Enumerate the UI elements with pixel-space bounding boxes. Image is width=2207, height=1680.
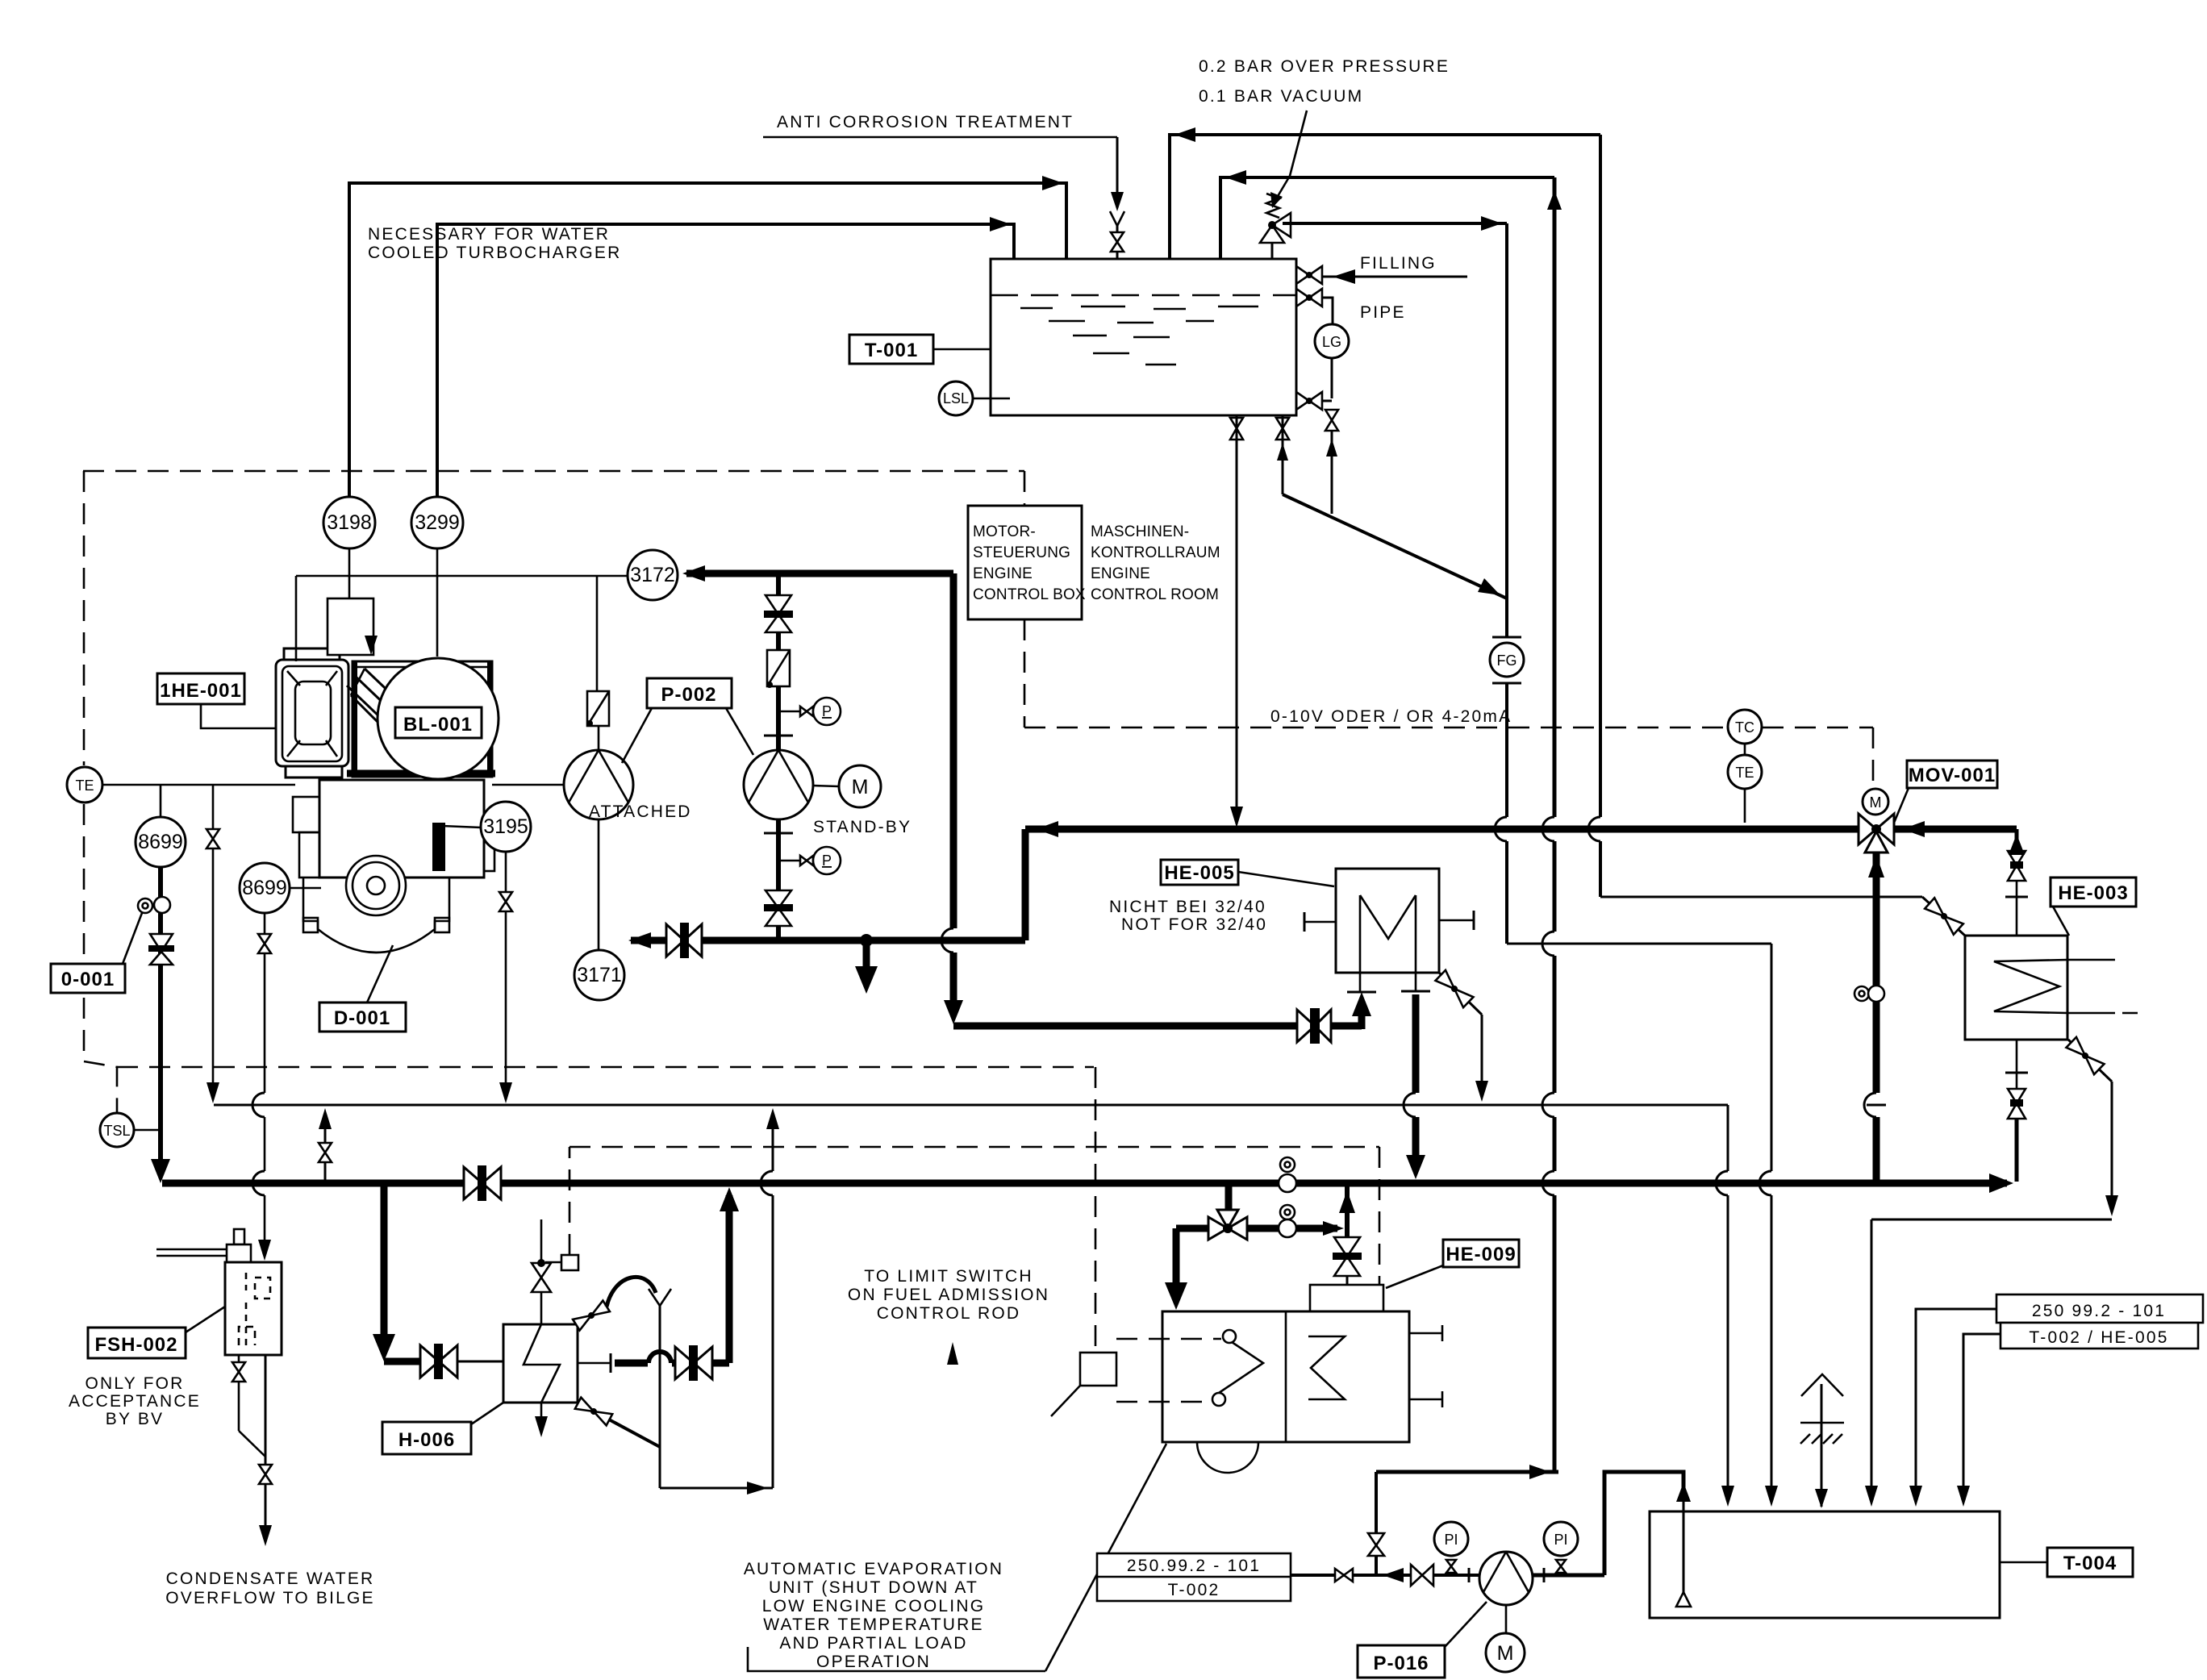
svg-text:OPERATION: OPERATION [816, 1653, 931, 1671]
wire: drain run to tank T-004 [1507, 944, 1778, 1507]
wire: anti corrosion dosing drop into tank T-001 [1110, 137, 1124, 232]
label MOV-001 [1894, 761, 1997, 823]
note to limit switch [848, 1267, 1049, 1365]
svg-text:AND PARTIAL LOAD: AND PARTIAL LOAD [779, 1634, 967, 1653]
svg-text:BL-001: BL-001 [403, 714, 473, 736]
svg-text:TE: TE [1735, 765, 1754, 781]
filling pipe [1322, 254, 1467, 322]
svg-text:NICHT BEI 32/40: NICHT BEI 32/40 [1109, 898, 1266, 916]
svg-text:8699: 8699 [138, 831, 183, 853]
pipe HE-005 feed (y=1272) [953, 973, 1376, 1044]
svg-text:CONTROL ROD: CONTROL ROD [877, 1304, 1021, 1323]
instrument TC [1728, 710, 1762, 744]
svg-text:TSL: TSL [103, 1123, 130, 1139]
HE-003 drain to T-004 [1865, 1037, 2118, 1507]
dashed limit switch signal path [569, 1147, 1379, 1284]
valve 45deg on HE-003 feed [1925, 898, 1963, 934]
label P-002 [622, 678, 753, 763]
P-016 suction line [1291, 1565, 1479, 1586]
svg-text:ENGINE: ENGINE [1091, 565, 1150, 582]
svg-text:FG: FG [1497, 652, 1517, 669]
FSH-002 float switch vessel [156, 1229, 282, 1355]
branch main to header (x=403) [319, 1108, 332, 1183]
sample point on bottom main [1279, 1157, 1296, 1192]
tank bottom drain valve 1 [1230, 415, 1243, 827]
instrument TSL [100, 1113, 162, 1147]
svg-text:T-001: T-001 [865, 340, 918, 361]
pipe L1: turbocharger vent 3198 to tank [349, 176, 1066, 498]
pipe: O-001 drain down to bottom main [138, 867, 174, 1183]
wire crossing jumps [941, 928, 963, 953]
svg-text:H-006: H-006 [398, 1429, 455, 1451]
svg-text:T-002: T-002 [1168, 1581, 1220, 1599]
label T-001 [849, 335, 991, 364]
svg-text:TO LIMIT SWITCH: TO LIMIT SWITCH [864, 1267, 1033, 1286]
label 1HE-001 [157, 673, 276, 728]
pump P-016 [1479, 1552, 1533, 1634]
label D-001 [319, 945, 406, 1032]
HE-009 recirculation right leg [1247, 1183, 1362, 1285]
bypass up to evap return riser [1368, 1465, 1558, 1575]
svg-text:0-001: 0-001 [61, 969, 115, 990]
FSH-002 drains [232, 1355, 272, 1546]
instrument TE engine [67, 767, 295, 802]
svg-text:CONDENSATE WATER: CONDENSATE WATER [166, 1570, 375, 1588]
drain header (y=1370) [214, 1105, 1734, 1507]
svg-text:P-002: P-002 [661, 684, 716, 706]
label HE-005 with note [1109, 860, 1334, 934]
svg-text:ONLY FOR: ONLY FOR [85, 1374, 184, 1393]
heat exchanger HE-005 [1304, 869, 1474, 973]
pipe R2: return line 2 into tank top [1220, 170, 1562, 259]
H-006 overflow swan neck to funnel [573, 1277, 671, 1488]
bottom main (y=1467) [162, 1173, 2013, 1193]
svg-text:0.1 BAR VACUUM: 0.1 BAR VACUUM [1199, 87, 1363, 106]
svg-text:M: M [1497, 1642, 1514, 1665]
note: necessary for water cooled turbocharger [368, 225, 621, 262]
svg-text:MOV-001: MOV-001 [1909, 765, 1996, 786]
note condensate water overflow [165, 1570, 375, 1607]
svg-text:FSH-002: FSH-002 [94, 1334, 177, 1356]
HE-003 bottom valve to main [2005, 1040, 2028, 1182]
svg-text:UNIT (SHUT DOWN AT: UNIT (SHUT DOWN AT [769, 1578, 978, 1597]
svg-text:3198: 3198 [327, 511, 372, 534]
svg-text:LG: LG [1322, 334, 1341, 350]
riser: evaporator return to tank (x=1927) [1553, 177, 1557, 1472]
node 3172 [296, 550, 678, 661]
PI gauge 1 [1434, 1522, 1468, 1573]
svg-text:WATER TEMPERATURE: WATER TEMPERATURE [763, 1615, 983, 1634]
riser MOV bottom port from T-004 loop [1854, 853, 1884, 1183]
valve on bottom main [464, 1165, 501, 1201]
svg-text:P: P [822, 703, 832, 719]
tank T-004 [1650, 1494, 2000, 1618]
main engine outlet header to MOV-001 (y=1028) [1025, 821, 2017, 837]
svg-text:HE-005: HE-005 [1164, 862, 1234, 884]
LG lower tank valve [1296, 392, 1332, 410]
charge air cooler housing [347, 661, 495, 777]
HE-005 drain to header [1435, 970, 1488, 1102]
control box MOTOR-STEUERUNG [968, 506, 1220, 619]
svg-text:HE-009: HE-009 [1446, 1244, 1516, 1265]
charge air connection box [328, 598, 378, 655]
svg-text:STAND-BY: STAND-BY [813, 818, 912, 836]
svg-text:KONTROLLRAUM: KONTROLLRAUM [1091, 544, 1220, 561]
filling pipe valve [1296, 266, 1322, 284]
evaporator HE-009 [1162, 1285, 1442, 1473]
pump P-002 attached [564, 576, 692, 950]
svg-text:ON FUEL ADMISSION: ON FUEL ADMISSION [848, 1286, 1049, 1304]
node 8699 engine oil [136, 785, 186, 867]
motor M stand-by [813, 765, 912, 836]
valve on dosing line [1111, 232, 1124, 259]
note: 0.2 bar over pressure / 0.1 bar vacuum [1199, 57, 1450, 208]
pump P-016 circuit [1097, 1553, 1291, 1601]
svg-text:ATTACHED: ATTACHED [589, 802, 692, 821]
valve MOV-001 3-way [1859, 814, 1894, 853]
atmospheric vent for T-004 [1800, 1374, 1844, 1508]
svg-text:MOTOR-: MOTOR- [973, 523, 1036, 540]
svg-text:NOT FOR 32/40: NOT FOR 32/40 [1121, 915, 1267, 934]
funnel drain to header riser [660, 1108, 779, 1494]
dashed links limit switch to HE-009 [1051, 1339, 1221, 1416]
HE-005 outlet down to bottom main [1401, 973, 1430, 1179]
dashed border around engine scope [83, 471, 1095, 1353]
dashed control line 0-10V [1024, 707, 1873, 787]
svg-text:0-10V ODER / OR 4-20mA: 0-10V ODER / OR 4-20mA [1270, 707, 1512, 726]
svg-text:TE: TE [75, 777, 94, 794]
wire: engine suction line right of engine to attached pump [492, 784, 565, 786]
relief valve on tank T-001 [1260, 194, 1291, 259]
engine D-001 block [293, 780, 494, 953]
svg-text:COOLED TURBOCHARGER: COOLED TURBOCHARGER [368, 244, 621, 262]
node 3171 [574, 950, 624, 1000]
svg-text:M: M [1870, 794, 1882, 811]
svg-text:PI: PI [1554, 1532, 1567, 1548]
svg-text:ENGINE: ENGINE [973, 565, 1033, 582]
wire: drain collector diagonal [1283, 494, 1507, 598]
turbo compressor bellows duct [347, 669, 398, 724]
preheater H-006 [503, 1324, 578, 1437]
node 3195 [442, 802, 531, 1103]
svg-text:ANTI CORROSION TREATMENT: ANTI CORROSION TREATMENT [777, 113, 1074, 131]
instrument LG [1315, 324, 1349, 398]
pipe L2: blower vent 3299 to tank [437, 217, 1014, 498]
svg-text:3299: 3299 [415, 511, 460, 534]
LG gauge branch valve [1296, 289, 1333, 324]
svg-text:OVERFLOW TO BILGE: OVERFLOW TO BILGE [165, 1589, 375, 1607]
label P-016 [1358, 1602, 1487, 1678]
node 3198 [323, 497, 375, 598]
svg-text:T-004: T-004 [2063, 1553, 2117, 1574]
P-016 discharge to tank [1533, 1472, 1691, 1582]
svg-text:MASCHINEN-: MASCHINEN- [1091, 523, 1189, 540]
dashed control path through control box [1024, 471, 1026, 727]
svg-text:CONTROL ROOM: CONTROL ROOM [1091, 586, 1219, 603]
svg-text:P-016: P-016 [1373, 1653, 1429, 1674]
instrument LSL [939, 381, 1010, 415]
pipe: HE-003 feed line [1600, 897, 1965, 936]
motor actuator M of MOV-001 [1863, 789, 1888, 815]
riser HE-003 bottom to main [2005, 829, 2028, 936]
svg-text:STEUERUNG: STEUERUNG [973, 544, 1070, 561]
svg-text:BY BV: BY BV [106, 1410, 164, 1428]
HE-009 feed left leg [1165, 1228, 1208, 1310]
riser: HE-003 vent to tank (x=1984) [1599, 135, 1602, 897]
svg-text:D-001: D-001 [334, 1007, 390, 1029]
label HE-003 [2051, 878, 2136, 936]
note: anti corrosion treatment text [763, 113, 1117, 137]
label T-004 [2000, 1548, 2133, 1577]
LG drain valve [1325, 410, 1338, 514]
drain riser from relief / FG sight glass [1490, 223, 1524, 944]
svg-text:0.2 BAR OVER PRESSURE: 0.2 BAR OVER PRESSURE [1199, 57, 1450, 76]
svg-text:8699: 8699 [242, 877, 287, 899]
instrument TE [1728, 744, 1762, 823]
tank bottom drain valve 2 [1276, 415, 1289, 494]
pipe 3172 engine outlet thick [682, 565, 963, 1024]
label FSH-002 [69, 1307, 225, 1428]
svg-text:PI: PI [1444, 1532, 1458, 1548]
svg-text:HE-003: HE-003 [2058, 882, 2128, 904]
node 3299 [411, 497, 463, 657]
svg-text:ACCEPTANCE: ACCEPTANCE [69, 1392, 201, 1411]
svg-text:1HE-001: 1HE-001 [160, 680, 242, 702]
pipe R1: return line into tank top (vent from HE-003 line riser) [1170, 127, 1600, 259]
label H-006 [382, 1403, 503, 1454]
branch to H-006 preheater [373, 1183, 503, 1379]
svg-text:TC: TC [1735, 719, 1754, 736]
3-way valve branch to HE-009 [1208, 1183, 1247, 1240]
svg-text:NECESSARY FOR WATER: NECESSARY FOR WATER [368, 225, 610, 244]
svg-text:M: M [852, 776, 869, 798]
svg-text:3171: 3171 [577, 964, 622, 986]
svg-text:3195: 3195 [483, 815, 528, 838]
pipe R3: relief discharge to drain riser [1283, 216, 1507, 231]
node 8699 second [240, 863, 321, 1261]
svg-text:CONTROL BOX: CONTROL BOX [973, 586, 1086, 603]
blower BL-001 [378, 658, 499, 779]
svg-text:250.99.2 - 101: 250.99.2 - 101 [1127, 1557, 1261, 1575]
tank T-001 [991, 259, 1296, 415]
svg-text:T-002 / HE-005: T-002 / HE-005 [2029, 1328, 2168, 1347]
H-006 drain diagonal to funnel line [575, 1398, 660, 1447]
svg-text:LSL: LSL [943, 390, 969, 406]
turbocharger 1HE-001 [276, 648, 348, 777]
label O-001 [51, 913, 142, 993]
svg-text:AUTOMATIC EVAPORATION: AUTOMATIC EVAPORATION [744, 1560, 1003, 1578]
svg-text:LOW ENGINE COOLING: LOW ENGINE COOLING [762, 1597, 985, 1615]
svg-text:3172: 3172 [630, 564, 675, 586]
valve line from engine (x=264) [207, 785, 219, 1103]
H-006 outlet to main riser [578, 1187, 739, 1381]
label HE-009 [1386, 1240, 1519, 1288]
svg-text:P: P [822, 853, 832, 869]
motor M P-016 [1486, 1633, 1525, 1672]
svg-text:250 99.2 - 101: 250 99.2 - 101 [2032, 1302, 2166, 1320]
pump suction main to engine 3171 [628, 829, 1025, 994]
svg-text:FILLING: FILLING [1360, 254, 1437, 273]
reference box 250.99.2-101 / T-002 / HE-005 [1909, 1294, 2203, 1507]
H-006 vent valve with limit switch [532, 1219, 578, 1324]
note automatic evaporation unit [744, 1444, 1166, 1671]
heat exchanger HE-003 [1965, 936, 2138, 1040]
svg-text:PIPE: PIPE [1360, 303, 1406, 322]
pump P-002 stand-by with strainer [744, 573, 841, 940]
